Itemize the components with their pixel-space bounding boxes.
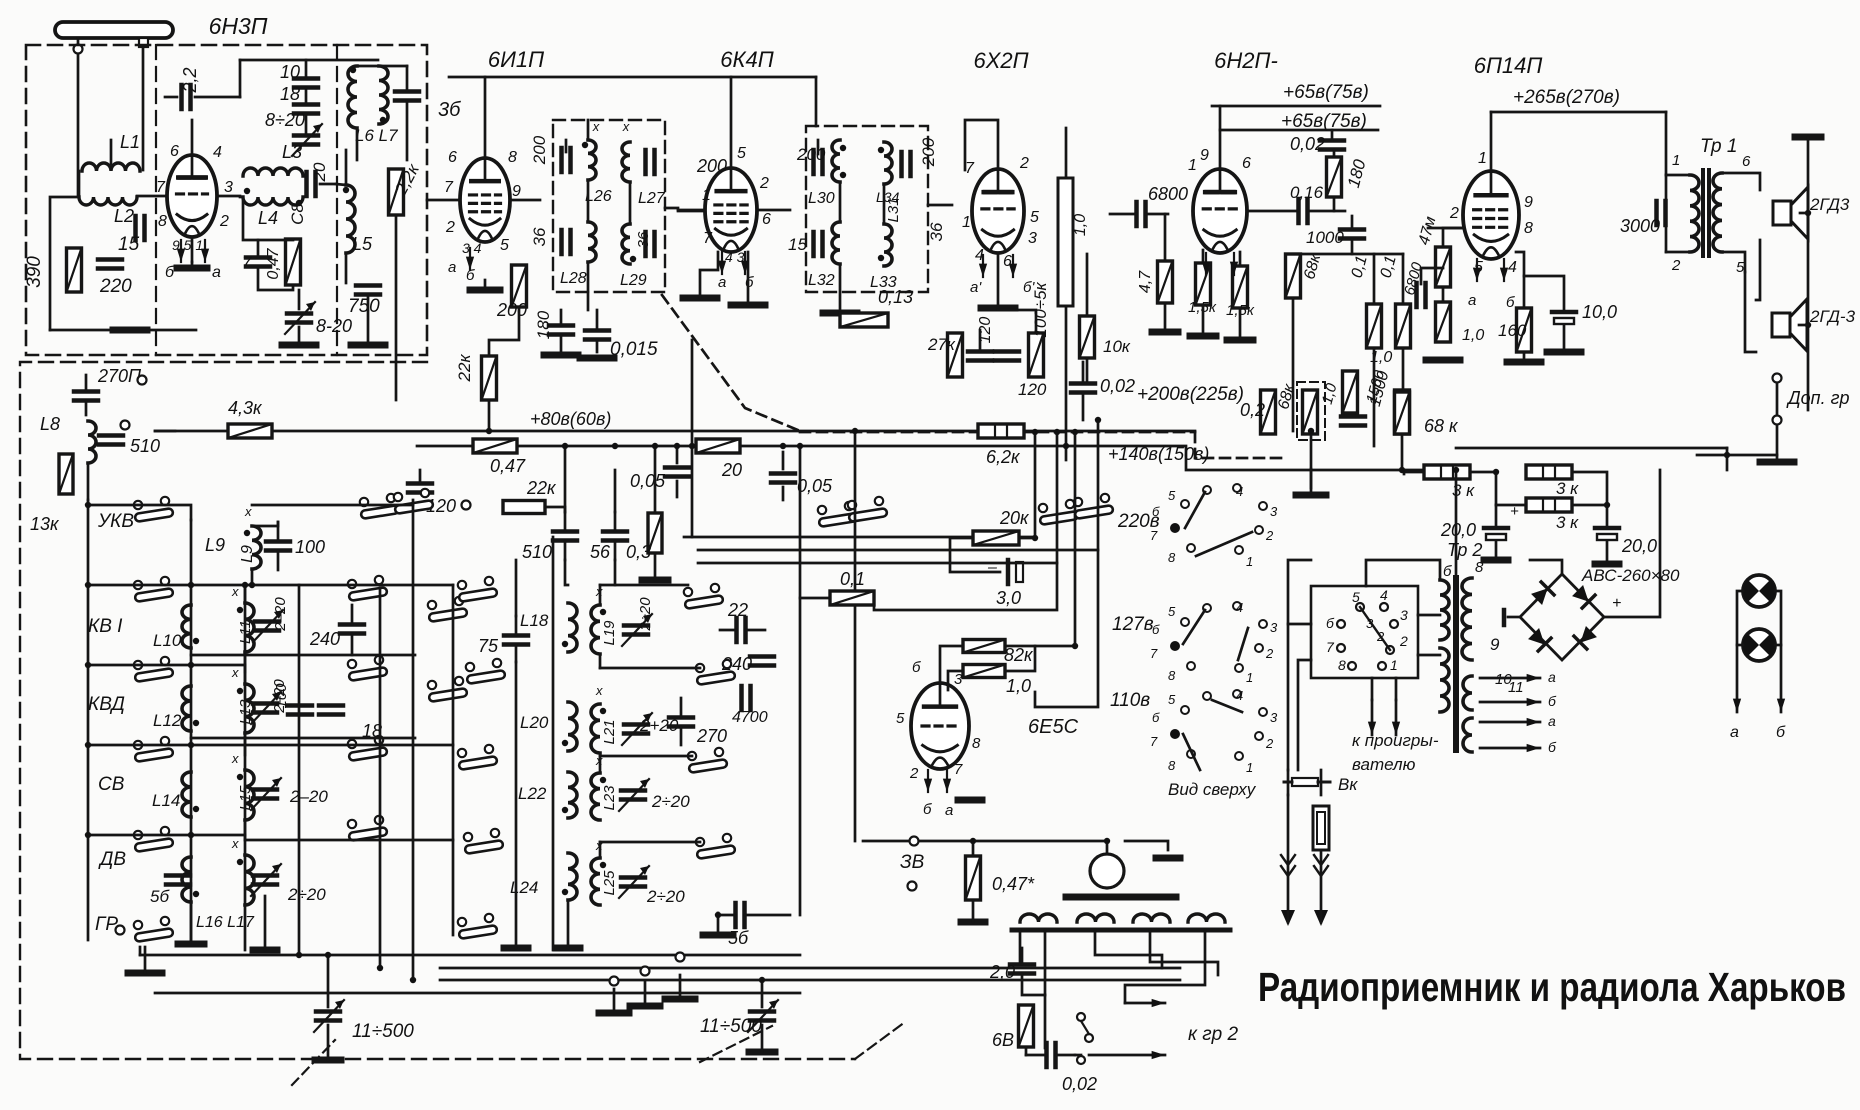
svg-text:3: 3 xyxy=(1270,504,1278,519)
label tube 6Х2П xyxy=(973,48,1028,73)
wire spk stub2 xyxy=(1799,324,1808,327)
wire 01a down xyxy=(1373,348,1376,446)
vert e join xyxy=(1005,645,1075,648)
wire 10k up xyxy=(1086,254,1089,316)
wire IF1 down xyxy=(587,262,590,310)
svg-text:6: 6 xyxy=(1742,153,1751,170)
junction d26 xyxy=(1032,429,1038,435)
resistor mains xyxy=(1313,806,1329,850)
svg-text:5: 5 xyxy=(1168,692,1176,707)
label 2-20 СВ xyxy=(289,787,328,806)
label 200 g xyxy=(696,156,727,176)
svg-text:L25: L25 xyxy=(601,870,618,896)
vert drop f xyxy=(1035,420,1098,707)
tuning capacitor 11÷500 b xyxy=(748,980,778,1032)
svg-text:270: 270 xyxy=(696,726,727,746)
svg-text:a: a xyxy=(1468,292,1476,309)
osc row4 xyxy=(600,841,700,844)
coil L9 xyxy=(244,526,261,569)
pin 2 xyxy=(219,213,229,230)
ground 6Е5С xyxy=(958,797,982,804)
label 9 xyxy=(1490,635,1500,654)
label 4,3к xyxy=(228,398,263,418)
svg-text:3: 3 xyxy=(224,179,233,196)
wire top right bus xyxy=(1456,447,1727,450)
capacitor 10,0 xyxy=(1552,312,1576,324)
svg-text:СВ: СВ xyxy=(98,774,125,795)
pin 1 xyxy=(1672,152,1680,169)
svg-text:4: 4 xyxy=(1508,259,1517,276)
svg-text:7: 7 xyxy=(444,179,454,196)
swb 2 xyxy=(1399,633,1408,649)
wire 22k down xyxy=(488,400,491,431)
label 180 xyxy=(534,310,553,339)
junction d38 xyxy=(715,912,721,918)
pin 3 4 xyxy=(462,240,482,256)
svg-text:1,0: 1,0 xyxy=(1462,327,1484,344)
junction d31 xyxy=(1399,467,1405,473)
capacitor 240 КВ1 xyxy=(340,605,364,655)
svg-text:L27: L27 xyxy=(638,190,666,207)
sel nums a8 xyxy=(1246,554,1253,569)
svg-text:L9: L9 xyxy=(239,545,256,563)
wire 3k join xyxy=(1404,471,1424,474)
svg-text:0,2: 0,2 xyxy=(1240,400,1265,420)
pin 1 xyxy=(702,187,711,204)
svg-text:8: 8 xyxy=(1524,220,1533,237)
dashed divider 2 xyxy=(336,45,338,355)
resistor 0,13 xyxy=(840,313,888,327)
vert 56 top xyxy=(614,470,617,512)
wire 01b down xyxy=(1402,348,1405,391)
resistor 68к r xyxy=(1286,254,1301,298)
wire gnd160 xyxy=(1523,352,1526,362)
long bus osc1 xyxy=(140,954,800,957)
label 11 xyxy=(1508,679,1524,696)
swb 8 xyxy=(1338,657,1346,673)
resistor 3к a xyxy=(1424,465,1470,479)
long bus osc3 xyxy=(440,979,1180,982)
coil L17 xyxy=(237,855,254,905)
pin б xyxy=(912,659,921,676)
svg-text:4,7: 4,7 xyxy=(1137,270,1154,293)
svg-text:200: 200 xyxy=(919,137,938,167)
label 3к a xyxy=(1452,481,1475,500)
pin б xyxy=(165,264,175,281)
ground 750 xyxy=(351,342,385,349)
svg-text:2: 2 xyxy=(1449,205,1459,222)
mid link56 xyxy=(614,560,617,585)
wire 15a xyxy=(1202,250,1205,263)
svg-text:180: 180 xyxy=(534,310,553,339)
svg-text:1: 1 xyxy=(1390,657,1398,673)
band bus2 xyxy=(190,520,193,940)
coil L25 xyxy=(591,858,606,905)
label L15 xyxy=(237,785,254,811)
capacitor 240 osc xyxy=(750,657,774,666)
wire to gnd xyxy=(298,290,301,309)
svg-text:10к: 10к xyxy=(1103,337,1131,356)
svg-text:a: a xyxy=(1548,713,1556,729)
wire 1000 down xyxy=(1351,239,1354,254)
label АВС-260×80 xyxy=(1581,566,1680,585)
capacitor 220 xyxy=(98,260,122,269)
svg-text:2: 2 xyxy=(1376,629,1385,644)
coil L1 xyxy=(82,140,140,171)
bridge top xyxy=(1530,560,1562,574)
svg-text:2: 2 xyxy=(1671,257,1681,274)
label 2ГД3 xyxy=(1809,195,1850,214)
svg-text:б: б xyxy=(923,801,932,818)
svg-text:510: 510 xyxy=(130,436,160,456)
label b wind xyxy=(1443,563,1452,580)
junction d34 xyxy=(1604,502,1610,508)
sel nums c8 xyxy=(1246,760,1253,775)
svg-text:АВС-260×80: АВС-260×80 xyxy=(1581,566,1680,585)
capacitor L30 xyxy=(814,140,823,174)
ground 0015 xyxy=(580,355,614,362)
label b h2 xyxy=(1548,739,1557,755)
pin 2 xyxy=(445,219,455,236)
capacitor 3000 xyxy=(1657,175,1667,252)
wire right vert xyxy=(1726,448,1729,470)
resistor 3к c xyxy=(1526,498,1572,512)
label 0,05 b xyxy=(797,476,833,496)
label 1500 m xyxy=(1363,368,1388,405)
capacitor L7 tank xyxy=(395,66,419,160)
dashed box 68k xyxy=(1297,382,1325,440)
selector dot2 xyxy=(1171,642,1180,651)
svg-text:7: 7 xyxy=(242,253,252,272)
svg-text:4: 4 xyxy=(1236,600,1243,615)
resistor 0,47 grid xyxy=(286,239,301,285)
transformer Тр2 heater 10-11 xyxy=(1463,676,1472,710)
svg-text:б: б xyxy=(1506,294,1515,311)
sel nums c xyxy=(1168,692,1176,707)
wire 68k r down xyxy=(1292,298,1295,431)
ground L4 xyxy=(282,342,316,349)
label L3 xyxy=(282,142,302,162)
svg-text:6И1П: 6И1П xyxy=(488,47,544,72)
label 8-20 xyxy=(316,316,352,336)
transformer Тр1 core xyxy=(1703,170,1709,256)
svg-text:L34: L34 xyxy=(876,189,900,205)
svg-text:8: 8 xyxy=(1168,550,1176,565)
resistor 10к xyxy=(1080,316,1095,358)
pin arrow 7 xyxy=(1202,253,1210,275)
junction d33 xyxy=(1493,469,1499,475)
capacitor 270 xyxy=(669,698,693,745)
ground 6И1П xyxy=(470,280,500,290)
label 2,2 xyxy=(180,67,200,93)
svg-text:б: б xyxy=(1152,504,1160,519)
svg-text:2: 2 xyxy=(1019,155,1029,172)
svg-text:8: 8 xyxy=(1168,668,1176,683)
player bus xyxy=(863,840,1105,843)
capacitor L27 xyxy=(646,150,655,174)
svg-text:15: 15 xyxy=(788,235,807,254)
ground 1,5к a xyxy=(1190,333,1216,340)
ground tc a xyxy=(315,1057,341,1064)
capacitor 5б ДВ xyxy=(166,876,190,885)
svg-text:9: 9 xyxy=(512,183,521,200)
coil L14 xyxy=(182,772,199,817)
switch contact m10 xyxy=(848,497,888,522)
wire input node xyxy=(50,329,196,332)
junction spk1 xyxy=(1805,210,1811,216)
wire spk3 xyxy=(1745,272,1756,352)
potentiometer 100÷5к xyxy=(1058,178,1073,306)
capacitor 5б osc xyxy=(718,903,790,927)
wire L25 gnd xyxy=(515,662,518,948)
svg-text:22: 22 xyxy=(727,600,748,620)
vert drop c xyxy=(1034,432,1037,538)
osc row2 xyxy=(600,667,700,670)
wire 6Н2П out xyxy=(1247,210,1296,213)
capacitor 0,02 right xyxy=(1320,130,1344,150)
wire 4,7 up xyxy=(1164,214,1167,261)
label 20,0 a xyxy=(1440,520,1476,540)
svg-text:4,3к: 4,3к xyxy=(228,398,263,418)
switch СВ a xyxy=(134,737,174,762)
pin б' xyxy=(1023,279,1035,296)
mid horiz 563 xyxy=(698,562,1057,565)
svg-text:5: 5 xyxy=(500,237,509,254)
wire 47k top xyxy=(1443,228,1463,247)
label 0,02 xyxy=(1290,134,1325,154)
svg-text:200: 200 xyxy=(796,145,826,164)
bus +80в xyxy=(155,430,1195,433)
coil L23 xyxy=(591,773,606,820)
label Вид сверху xyxy=(1168,780,1257,799)
capacitor 1000 xyxy=(1340,230,1364,239)
svg-text:8-20: 8-20 xyxy=(316,316,352,336)
label 36 IF1 xyxy=(530,227,549,246)
svg-text:20: 20 xyxy=(310,162,329,182)
svg-text:1: 1 xyxy=(1246,554,1253,569)
svg-text:75: 75 xyxy=(478,636,499,656)
tube 6П14П xyxy=(1463,171,1519,259)
label 15 xyxy=(118,234,140,255)
ground L16 xyxy=(178,941,204,948)
row СВ top xyxy=(245,744,453,747)
label + a xyxy=(1510,503,1519,520)
capacitor 56 xyxy=(603,512,627,560)
wire chain2 xyxy=(305,114,308,135)
wire top drop xyxy=(239,60,242,97)
capacitor 6800 r xyxy=(1417,283,1426,307)
junction d30 xyxy=(1308,428,1314,434)
wire 82k r xyxy=(1005,646,1035,671)
svg-text:a: a xyxy=(212,264,221,281)
wire L6 bottom xyxy=(356,128,359,160)
svg-text:3 к: 3 к xyxy=(1556,479,1579,498)
junction d21 xyxy=(410,977,416,983)
wire 22k xyxy=(489,307,519,356)
resistor 0,47* xyxy=(966,856,981,900)
label 2÷20 L23 xyxy=(651,792,690,811)
svg-text:5: 5 xyxy=(896,710,905,727)
swb 2b xyxy=(1376,629,1385,644)
svg-text:x: x xyxy=(231,665,239,680)
vert drop a xyxy=(691,446,694,537)
pin a xyxy=(448,259,456,276)
svg-text:4: 4 xyxy=(213,144,222,161)
wire arrow stub a xyxy=(1371,678,1374,700)
dashed gang 3 xyxy=(700,1026,772,1062)
pickup w3 xyxy=(1095,930,1162,968)
svg-text:7: 7 xyxy=(1150,646,1158,661)
wire 047 gnd xyxy=(972,900,975,922)
label L34 xyxy=(876,189,900,205)
sel nums c4 xyxy=(1270,710,1278,725)
ground L24 xyxy=(556,945,580,952)
pin 1 xyxy=(1478,150,1487,167)
label 3000 xyxy=(1620,216,1660,236)
wire 6П14П top xyxy=(1490,112,1493,171)
label 18 КВД xyxy=(362,721,382,741)
svg-text:6Н2П-: 6Н2П- xyxy=(1214,48,1278,73)
capacitor 4700 xyxy=(742,686,751,710)
vert sw a xyxy=(298,585,301,955)
wire sw top xyxy=(1366,560,1440,586)
svg-text:8: 8 xyxy=(1168,758,1176,773)
coil L20 xyxy=(562,702,577,751)
label 1000 xyxy=(1306,228,1344,247)
label a lamp xyxy=(1730,724,1739,741)
svg-text:11÷500: 11÷500 xyxy=(700,1016,762,1037)
label 0,3 xyxy=(626,542,651,562)
junction d25 xyxy=(1104,838,1110,844)
resistor 22к mid xyxy=(503,501,545,514)
swb 3 xyxy=(1400,607,1408,623)
resistor 68к dash xyxy=(1303,390,1318,434)
mains l xyxy=(1287,795,1290,912)
junction d36 xyxy=(249,582,255,588)
wire L16 gnd xyxy=(190,902,193,940)
sw circle 4 xyxy=(1380,603,1388,611)
svg-text:160: 160 xyxy=(1498,321,1527,340)
pickup coil 3 xyxy=(1133,914,1170,922)
wire 15b xyxy=(1239,252,1242,266)
resistor 160 xyxy=(1517,308,1532,352)
lamp 2 xyxy=(1743,629,1776,661)
bus dashed AVC xyxy=(662,295,800,431)
ground 0,3 xyxy=(642,577,668,584)
vert sw e xyxy=(452,585,455,935)
switch КВД b xyxy=(348,656,388,681)
switch УКВ b xyxy=(360,494,400,519)
wire L4 left xyxy=(240,196,243,199)
svg-text:1,0: 1,0 xyxy=(1006,676,1031,696)
svg-text:2–20: 2–20 xyxy=(272,597,289,632)
label 6,2к xyxy=(986,447,1021,467)
label 36 mid xyxy=(635,231,652,248)
ground 10,0 xyxy=(1547,349,1581,356)
dashed box IF1 xyxy=(553,120,665,292)
junction d3 xyxy=(652,443,658,449)
wire L5 bot xyxy=(345,253,348,283)
jack ant2 xyxy=(121,421,130,430)
svg-text:20,0: 20,0 xyxy=(1621,536,1657,556)
label L21 xyxy=(601,719,618,744)
wire L9 bot xyxy=(251,569,254,585)
label 22к mid xyxy=(526,478,557,498)
label 0,1 a xyxy=(1349,254,1371,280)
svg-text:120: 120 xyxy=(1018,380,1047,399)
pickup w1 xyxy=(1019,930,1022,962)
wire sec top xyxy=(1722,173,1760,190)
capacitor 0,05 a xyxy=(665,446,689,497)
wire bus 65v b xyxy=(1220,129,1378,132)
pin б xyxy=(745,274,754,291)
sw circle 5 xyxy=(1356,603,1364,611)
resistor 6В xyxy=(1019,1005,1034,1047)
svg-text:2ГД-3: 2ГД-3 xyxy=(1809,307,1856,326)
junction d7 xyxy=(852,428,858,434)
svg-text:127в: 127в xyxy=(1112,614,1154,635)
label 3,0 xyxy=(996,588,1021,608)
svg-text:L18: L18 xyxy=(520,611,549,630)
heater arrow a xyxy=(1480,674,1540,682)
pin 7 xyxy=(965,160,975,177)
wire 3k out xyxy=(1572,472,1607,505)
svg-text:5: 5 xyxy=(1168,488,1176,503)
ground L17 xyxy=(253,947,277,954)
svg-text:a: a xyxy=(1730,724,1739,741)
lamp wire r xyxy=(1775,591,1781,700)
junction d0 xyxy=(486,428,492,434)
ground tie3 xyxy=(665,975,695,999)
coil L19 xyxy=(591,605,606,654)
wire sw left a xyxy=(1288,623,1311,626)
trimmer 8-20 bottom xyxy=(285,302,315,334)
jack player xyxy=(910,837,919,846)
junction d13 xyxy=(242,582,248,588)
svg-text:1: 1 xyxy=(1188,157,1197,174)
resistor 0,47 bus xyxy=(473,439,517,453)
ground 20b xyxy=(1595,561,1619,568)
ground 68k xyxy=(1296,469,1326,495)
svg-text:a: a xyxy=(718,274,726,291)
pin 5 xyxy=(1474,259,1483,276)
motor xyxy=(1090,854,1124,888)
wire 047 top xyxy=(972,841,975,856)
coil L11 xyxy=(237,603,254,652)
label 20 bus xyxy=(721,460,742,480)
wire dop xyxy=(1776,384,1779,414)
label 18 xyxy=(280,84,300,104)
switch КВД c xyxy=(428,677,468,702)
svg-text:20,0: 20,0 xyxy=(1440,520,1476,540)
trimmer x L21 xyxy=(595,683,603,698)
label L6 L7 xyxy=(355,126,398,145)
row УКВ top xyxy=(252,504,413,507)
wire spk stub1 xyxy=(1800,212,1808,215)
svg-text:3: 3 xyxy=(1270,620,1278,635)
label Тр 2 xyxy=(1447,540,1482,560)
label +200в(225в) xyxy=(1137,384,1244,405)
pin 6 xyxy=(448,149,457,166)
svg-text:1: 1 xyxy=(1672,152,1680,169)
junction d4 xyxy=(674,443,680,449)
label L12 xyxy=(153,711,182,730)
label 0,47* xyxy=(992,874,1035,894)
sel nums b8 xyxy=(1246,670,1253,685)
label 6800 xyxy=(1148,184,1188,204)
switch contact m4 xyxy=(458,914,498,939)
junction d37 xyxy=(797,443,803,449)
